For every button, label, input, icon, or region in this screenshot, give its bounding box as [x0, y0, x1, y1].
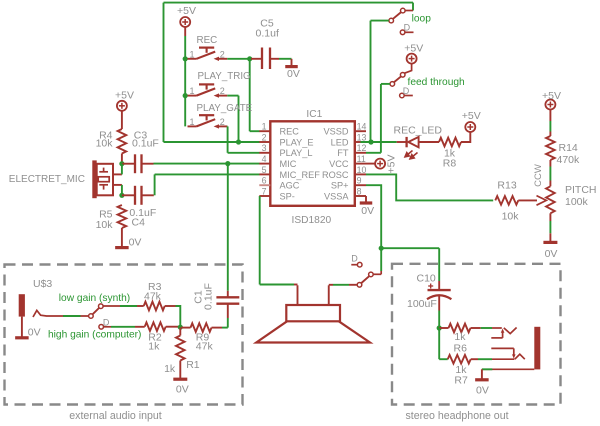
svg-text:IC1: IC1: [306, 109, 322, 120]
wire MIC net down to C1: [227, 164, 229, 291]
IC pin 2 stub PLAY_E: [259, 141, 270, 143]
svg-text:R8: R8: [443, 158, 457, 170]
svg-text:10k: 10k: [96, 137, 114, 149]
ground 0V at headphone jack: [475, 378, 489, 381]
svg-text:C10: C10: [417, 273, 436, 285]
ground 0V at input jack: [15, 336, 29, 339]
switch speaker disconnect SPDT: [380, 271, 382, 274]
wire MIC_REF net C4 up and to IC pin 5: [154, 174, 156, 195]
svg-text:100uF: 100uF: [407, 298, 437, 310]
junction REC net at C5: [247, 56, 252, 61]
svg-text:PLAY_E: PLAY_E: [280, 137, 314, 147]
contact D of feed through switch: [400, 93, 405, 98]
svg-text:D: D: [404, 22, 411, 32]
svg-text:ISD1820: ISD1820: [292, 215, 332, 226]
svg-text:0.1uF: 0.1uF: [203, 283, 215, 310]
svg-text:6: 6: [262, 176, 267, 186]
svg-text:SP+: SP+: [331, 181, 349, 191]
svg-text:2: 2: [262, 132, 267, 142]
wire loop switch to LED net: [371, 20, 389, 22]
power +5V symbol above R4: [117, 101, 127, 111]
input jack tip contact spring: [33, 310, 89, 317]
svg-text:ELECTRET_MIC: ELECTRET_MIC: [9, 174, 85, 185]
wire input jack sleeve to ground: [21, 317, 23, 337]
svg-text:2: 2: [220, 86, 225, 96]
svg-text:PLAY_TRIG: PLAY_TRIG: [198, 71, 251, 82]
junction mic minus node: [119, 193, 124, 198]
svg-text:0.1uF: 0.1uF: [132, 137, 159, 149]
switch REC pushbutton: [188, 58, 197, 60]
wire R5 to ground: [121, 228, 123, 247]
wire REC net drop to IC pin 1: [249, 59, 251, 131]
svg-text:PLAY_L: PLAY_L: [280, 148, 313, 158]
svg-text:CCW: CCW: [533, 164, 544, 187]
svg-text:10k: 10k: [502, 211, 520, 223]
junction +5V rail at PLAY_TRIG switch: [183, 93, 188, 98]
svg-text:0V: 0V: [361, 205, 374, 217]
svg-text:+5V: +5V: [177, 5, 196, 17]
svg-text:7: 7: [262, 186, 267, 196]
svg-text:stereo headphone out: stereo headphone out: [405, 410, 508, 422]
svg-text:+5V: +5V: [386, 155, 398, 174]
headphone jack ring switch contact: [491, 347, 514, 349]
wire LED pin 13 net: [361, 141, 397, 143]
potentiometer PITCH 100k body: [546, 186, 555, 213]
svg-text:D: D: [103, 317, 110, 327]
wire R4 to mic node: [121, 154, 123, 164]
svg-text:1: 1: [189, 117, 194, 127]
IC pin 13 stub LED: [355, 141, 366, 143]
resistor R14 470k: [546, 136, 555, 160]
svg-text:D: D: [351, 254, 358, 264]
svg-text:SP-: SP-: [280, 191, 295, 201]
svg-text:external audio input: external audio input: [69, 410, 162, 422]
wire C10 to R6 R7 node: [438, 296, 440, 311]
svg-text:D: D: [403, 86, 410, 96]
IC pin 12 stub FT: [355, 152, 366, 154]
ground 0V below R1: [173, 378, 187, 381]
svg-text:0V: 0V: [476, 384, 489, 396]
IC pin 10 stub ROSC: [355, 173, 366, 175]
resistor R6 1k: [439, 327, 448, 329]
capacitor C10 100uF polarized: [438, 281, 440, 290]
svg-text:3: 3: [262, 143, 267, 153]
wire feed through switch to FT net: [381, 83, 390, 85]
resistor R7 1k: [448, 355, 471, 364]
svg-text:13: 13: [357, 132, 367, 142]
wire PLAY_GATE to IC pin 3 PLAY_L: [226, 125, 228, 127]
svg-text:U$3: U$3: [33, 278, 52, 290]
headphone jack sleeve wire to ground: [482, 368, 534, 370]
junction +5V rail at REC switch: [183, 56, 188, 61]
svg-text:PLAY_GATE: PLAY_GATE: [197, 103, 253, 114]
wire low gain to R3: [103, 305, 120, 307]
wire speaker left terminal: [297, 285, 299, 305]
ground 0V at C5: [285, 65, 298, 68]
wire MIC net C3 to IC pin 4: [154, 163, 260, 165]
resistor R1 1k: [179, 328, 181, 336]
headphone jack body: [534, 327, 540, 370]
wire ROSC pin 10 to R13: [366, 174, 493, 200]
power +5V symbol at R8: [465, 122, 475, 132]
svg-text:+5V: +5V: [462, 110, 481, 122]
resistor R8 1k: [439, 138, 461, 147]
wire R1 to ground: [179, 361, 181, 379]
IC pin 5 stub MIC_REF: [259, 173, 270, 175]
junction R6 R7 node: [437, 325, 442, 330]
wire SP- pin 7 down to speaker: [259, 196, 261, 285]
wire R14 to potentiometer: [549, 160, 551, 167]
wire top frame left vertical segment down to PLAY_E row: [163, 3, 165, 142]
svg-text:+5V: +5V: [404, 43, 423, 55]
potentiometer PITCH 100k wiper arrow: [537, 196, 547, 206]
resistor R5 10k: [118, 205, 127, 228]
svg-text:C4: C4: [132, 217, 146, 229]
wire SP+ branch to C10: [381, 247, 439, 249]
resistor R9 47k: [181, 327, 191, 329]
wire R6 R7 node down to R7: [438, 328, 440, 359]
ground 0V below PITCH: [543, 241, 557, 244]
speaker: [286, 305, 340, 321]
svg-text:10k: 10k: [96, 219, 114, 231]
svg-text:VCC: VCC: [329, 159, 349, 169]
svg-text:FT: FT: [337, 148, 349, 158]
svg-text:LED: LED: [331, 137, 349, 147]
svg-text:10: 10: [357, 165, 367, 175]
switch gain select SPDT: [89, 314, 94, 319]
audio input jack U$3 body: [19, 294, 25, 316]
electret microphone ELECTRET_MIC: [92, 160, 96, 198]
svg-text:8: 8: [357, 186, 362, 196]
IC pin 6 stub AGC: [259, 184, 270, 186]
svg-text:1k: 1k: [148, 341, 160, 353]
svg-text:2: 2: [220, 49, 225, 59]
wire +5V to feed through switch: [405, 63, 412, 73]
svg-text:12: 12: [357, 143, 367, 153]
wire FT pin 12 net from feed through switch: [366, 152, 381, 154]
wire mic pin2 to minus node: [121, 185, 123, 195]
power +5V symbol above R14: [545, 100, 555, 110]
svg-text:1k: 1k: [164, 363, 176, 375]
junction summing node R1 R2 R3 R9: [178, 325, 183, 330]
wire speaker right terminal: [328, 285, 330, 305]
junction SP+ / C10 branch: [379, 246, 384, 251]
wire high gain to R2: [111, 326, 135, 328]
svg-text:47k: 47k: [144, 291, 162, 303]
switch feed through SPDT: [400, 73, 405, 78]
switch PLAY_GATE pushbutton: [188, 125, 197, 127]
dashed box external audio input: [5, 265, 243, 405]
wire +5V to R4: [121, 110, 123, 129]
svg-text:11: 11: [357, 154, 366, 164]
wire REC switch to C5 and net down to pin 1: [227, 58, 251, 60]
svg-text:high gain (computer): high gain (computer): [48, 329, 141, 340]
contact D high gain: [99, 325, 104, 330]
IC pin 9 stub SP+: [355, 184, 366, 186]
capacitor C3 0.1uF: [122, 163, 135, 165]
svg-text:+5V: +5V: [115, 90, 134, 102]
headphone jack ring spring contact: [515, 354, 525, 359]
svg-text:470k: 470k: [557, 154, 581, 166]
svg-text:1: 1: [189, 86, 194, 96]
svg-text:R6: R6: [454, 342, 468, 354]
svg-text:ROSC: ROSC: [322, 170, 349, 180]
IC pin 1 stub REC: [259, 130, 270, 132]
capacitor C5 0.1uf: [251, 58, 262, 60]
contact D of loop switch: [400, 30, 405, 35]
IC pin 4 stub MIC: [259, 163, 270, 165]
LED light arrows: [405, 151, 418, 159]
wire VSSA pin 8 to ground: [365, 196, 367, 202]
wire PLAY_E horizontal into IC pin 2: [164, 141, 260, 143]
IC pin 3 stub PLAY_L: [259, 152, 270, 154]
svg-text:VSSA: VSSA: [324, 191, 349, 201]
junction LED net / loop switch line: [368, 139, 373, 144]
svg-text:2: 2: [220, 117, 225, 127]
svg-text:loop: loop: [412, 14, 432, 25]
svg-text:0V: 0V: [287, 68, 300, 80]
capacitor C1 0.1uF: [227, 291, 229, 298]
svg-text:R13: R13: [497, 179, 516, 191]
contact D of speaker switch: [357, 262, 362, 267]
wire LED anode to R8: [419, 141, 439, 143]
svg-text:REC: REC: [197, 35, 218, 46]
svg-text:0V: 0V: [28, 327, 41, 339]
wire R9 to C1: [212, 327, 223, 329]
svg-text:0.1uf: 0.1uf: [256, 27, 279, 39]
wire R8 to +5V: [461, 131, 470, 142]
svg-text:0V: 0V: [129, 236, 142, 248]
svg-text:1: 1: [189, 49, 194, 59]
resistor R4 10k: [118, 129, 127, 154]
switch PLAY_TRIG pushbutton: [188, 95, 197, 97]
svg-text:low gain (synth): low gain (synth): [59, 293, 130, 304]
svg-text:REC: REC: [280, 127, 300, 137]
wire +5V to R14: [549, 109, 551, 121]
svg-text:0V: 0V: [176, 384, 189, 396]
wire R2 to summing junction: [166, 326, 181, 328]
wire mic pin1 to plus node: [121, 164, 123, 175]
wire tip to gain switch: [63, 315, 81, 317]
ground 0V below R5: [115, 246, 128, 249]
wire R13 to wiper: [518, 199, 537, 201]
svg-text:1: 1: [262, 122, 267, 132]
wire R3 to summing junction: [165, 305, 176, 307]
power +5V symbol above REC switch: [180, 17, 190, 27]
dashed box stereo headphone out: [392, 264, 561, 405]
wire PLAY_TRIG to PLAY_E net: [227, 95, 238, 97]
svg-text:14: 14: [357, 122, 367, 132]
svg-text:VSSD: VSSD: [323, 127, 348, 137]
IC pin 8 stub VSSA: [355, 195, 366, 197]
wire +5V rail down to switches: [184, 26, 186, 36]
ground 0V at pin 8: [360, 201, 373, 204]
wire R6 to jack tip: [471, 327, 481, 329]
IC pin 11 stub VCC: [355, 163, 366, 165]
IC U1 ISD1820 body: [270, 121, 355, 206]
svg-text:R7: R7: [454, 374, 468, 386]
svg-text:100k: 100k: [565, 196, 589, 208]
headphone jack tip spring contact: [504, 328, 517, 334]
resistor R2 1k: [145, 322, 166, 331]
wire C5 to ground: [279, 58, 292, 60]
capacitor C4 0.1uF: [122, 194, 135, 196]
junction MIC net to C1 branch: [225, 161, 230, 166]
svg-text:MIC_REF: MIC_REF: [280, 170, 321, 180]
svg-text:+5V: +5V: [542, 90, 561, 102]
IC pin 14 stub VSSD: [355, 130, 366, 132]
wire SP+ pin 9 down right side: [366, 185, 381, 271]
junction mic plus node: [119, 161, 124, 166]
wire potentiometer to ground: [549, 213, 551, 221]
switch loop SPDT: [412, 3, 414, 11]
power +5V symbol above feed through switch: [407, 54, 417, 64]
wire top frame net PLAY_E to loop switch, horizontal segment: [164, 2, 414, 4]
svg-text:REC_LED: REC_LED: [394, 125, 443, 137]
svg-text:4: 4: [262, 154, 267, 164]
svg-text:0V: 0V: [545, 248, 558, 260]
svg-text:AGC: AGC: [280, 181, 300, 191]
svg-text:5: 5: [262, 165, 267, 175]
IC pin 7 stub SP-: [259, 195, 270, 197]
svg-text:feed through: feed through: [408, 77, 465, 88]
svg-text:R1: R1: [186, 359, 200, 371]
svg-text:R14: R14: [559, 142, 578, 154]
svg-text:9: 9: [357, 176, 362, 186]
power +5V symbol at VCC pin 11: [366, 163, 376, 165]
junction PLAY_E / PLAY_TRIG: [236, 139, 241, 144]
wire R7 to jack ring: [471, 358, 478, 360]
svg-text:PITCH: PITCH: [565, 184, 597, 196]
svg-text:47k: 47k: [196, 341, 214, 353]
wire C1 to R9 node: [227, 318, 229, 328]
resistor R3 47k: [144, 302, 165, 311]
svg-text:MIC: MIC: [280, 159, 297, 169]
headphone jack tip switch contact: [491, 337, 502, 339]
